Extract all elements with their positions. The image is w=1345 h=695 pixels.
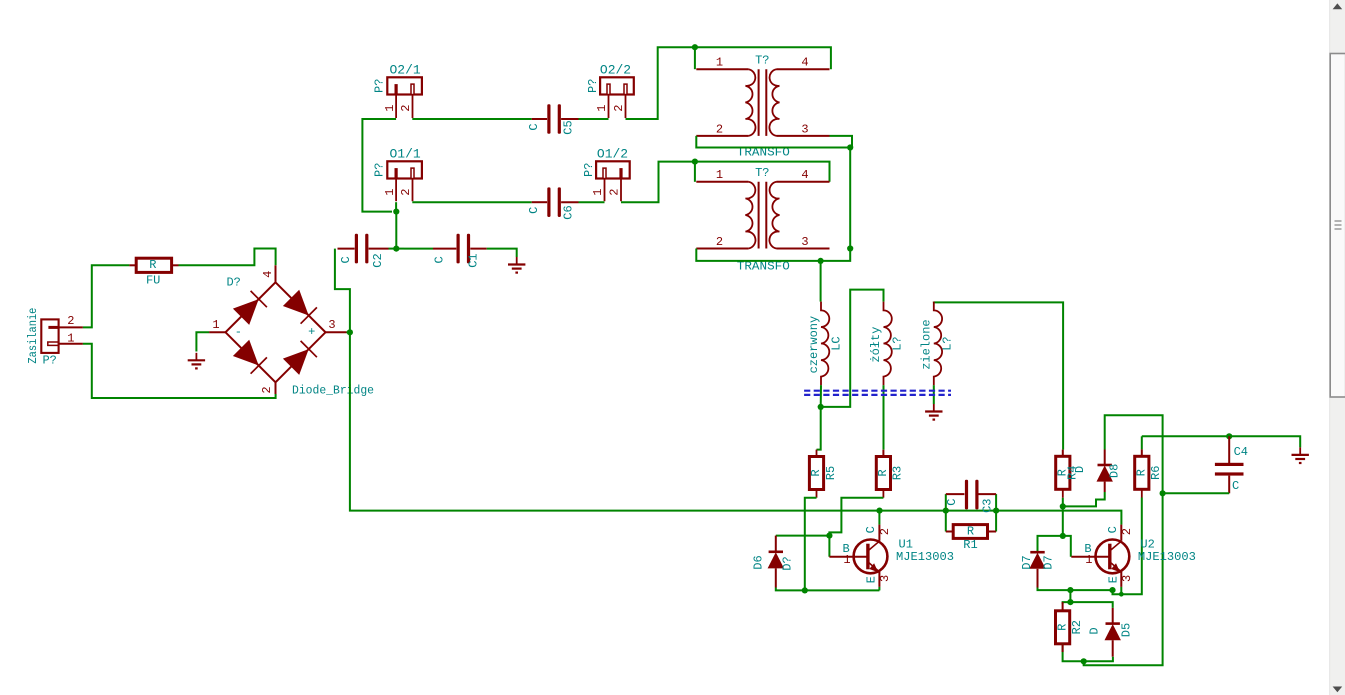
connector O1/2 (P?) — [582, 146, 630, 201]
svg-text:D7: D7 — [1042, 555, 1056, 569]
wire: to R2 top — [1063, 602, 1071, 604]
scrollbar track — [1330, 0, 1345, 695]
diode bridge D? (Diode_Bridge) — [209, 265, 374, 397]
svg-text:Zasilanie: Zasilanie — [26, 308, 40, 364]
svg-text:O2/2: O2/2 — [600, 62, 631, 77]
svg-text:2: 2 — [67, 314, 74, 328]
transistor U1 MJE13003 — [829, 525, 954, 587]
svg-text:2: 2 — [716, 122, 723, 136]
transformer T2 (TRANSFO) — [696, 166, 829, 273]
svg-text:R3: R3 — [891, 466, 905, 480]
wire: long node wire through C3/R1 — [880, 510, 997, 512]
svg-text:C2: C2 — [371, 253, 385, 267]
junction T1 bottom to inter-transformer rail — [847, 144, 853, 150]
svg-text:4: 4 — [261, 271, 275, 278]
svg-text:L?: L? — [891, 336, 905, 350]
connector O2/2 (P?) — [586, 62, 634, 118]
transistor U2 MJE13003 — [1071, 525, 1196, 587]
wire: T2 top rail — [691, 162, 830, 182]
wire: U1 collector from long wire — [878, 511, 880, 525]
capacitor C2 — [338, 234, 385, 268]
svg-text:C: C — [864, 526, 878, 533]
svg-text:1: 1 — [843, 553, 850, 567]
junction C2/C1 node — [393, 246, 399, 252]
resistor R2 — [1055, 611, 1084, 644]
svg-text:E: E — [864, 576, 878, 583]
wire: FU to bridge pin 4 — [179, 249, 276, 266]
svg-text:MJE13003: MJE13003 — [896, 550, 954, 564]
wire: down to T2 pin 1 — [694, 162, 696, 182]
wire: T1 pin2/pin3 bottom rail — [696, 136, 852, 148]
wire: R5 top pin stub — [816, 450, 818, 457]
ground (C1) — [508, 257, 525, 273]
svg-text:+: + — [308, 325, 315, 339]
wire: R6 top stub — [1141, 449, 1143, 456]
svg-text:P?: P? — [42, 354, 56, 368]
wire: C1 to ground — [487, 249, 517, 257]
svg-text:C3: C3 — [980, 498, 994, 512]
wire: R2 bottom rail to D5 anode — [1063, 644, 1113, 662]
svg-text:R6: R6 — [1149, 466, 1163, 480]
svg-text:2: 2 — [1120, 528, 1134, 535]
transformer T1 (TRANSFO) — [696, 54, 829, 160]
wire: zielone top stub — [933, 301, 935, 304]
svg-text:1: 1 — [716, 55, 723, 69]
resistor FU (fuse) — [129, 258, 178, 287]
junction emitter rail / R6 return — [1109, 587, 1115, 593]
wire: czerwony node up-over to zolty top — [821, 290, 884, 407]
svg-text:Diode_Bridge: Diode_Bridge — [292, 384, 374, 398]
svg-text:3: 3 — [801, 235, 808, 249]
junction U1 base node — [826, 533, 832, 539]
capacitor C1 — [432, 234, 486, 268]
wire: O1/1 pin1 stub down — [395, 202, 397, 211]
wire: R2 top stub — [1062, 602, 1064, 611]
resistor R4 — [1056, 456, 1080, 489]
svg-text:4: 4 — [801, 168, 808, 182]
svg-text:2: 2 — [716, 235, 723, 249]
svg-text:D: D — [1073, 466, 1087, 473]
wire: to inductor czerwony — [820, 261, 822, 302]
svg-text:U1: U1 — [899, 537, 913, 551]
wire: zielone top over to R4 riser — [934, 302, 1063, 449]
svg-text:MJE13003: MJE13003 — [1138, 550, 1196, 564]
svg-text:LC: LC — [830, 336, 844, 350]
junction U1 collector node — [876, 508, 882, 514]
connector O2/1 (P?) — [373, 62, 422, 118]
wire: R6 top rail to C4 top node — [1142, 435, 1229, 437]
wire: right leg of C3/R1 — [995, 494, 997, 531]
svg-text:C: C — [1106, 526, 1120, 533]
svg-text:C: C — [432, 256, 446, 263]
wire: rail to D5 cathode — [1070, 602, 1112, 608]
svg-text:C: C — [339, 256, 353, 263]
svg-text:1: 1 — [67, 331, 74, 345]
wire: U1 emitter rail — [776, 588, 880, 591]
junction emitter rail / R5 — [802, 587, 808, 593]
svg-text:L?: L? — [940, 336, 954, 350]
wire: node down to C2/C1 node — [395, 212, 397, 249]
svg-text:żółty: żółty — [869, 327, 883, 363]
wire: long wire right of C3/R1 to U2 collector — [996, 511, 1121, 525]
scrollbar thumb — [1330, 54, 1345, 398]
diode D5 — [1088, 608, 1134, 657]
wire: P? pin2 to fuse FU — [83, 265, 129, 327]
svg-text:D?: D? — [226, 275, 240, 289]
svg-text:3: 3 — [878, 575, 892, 582]
svg-text:R2: R2 — [1070, 620, 1084, 634]
wire: U2 emitter stub jog — [1120, 587, 1122, 594]
wire: O1/2 pin2 riser to T2 top — [621, 162, 691, 203]
connector P? Zasilanie (2-pin power input) — [26, 308, 83, 368]
inductor L? czerwony (red) — [807, 302, 843, 386]
svg-text:D?: D? — [781, 556, 795, 570]
dashed blue separator line (lower) — [804, 394, 951, 396]
svg-text:D7: D7 — [1020, 555, 1034, 569]
diode D7 — [1020, 552, 1056, 587]
svg-text:1: 1 — [595, 104, 609, 111]
svg-text:R1: R1 — [963, 538, 977, 552]
svg-text:3: 3 — [328, 318, 335, 332]
wire: R4 bottom pin stub — [1062, 489, 1064, 498]
scrollbar thumb grip lines — [1335, 221, 1342, 229]
wire: zolty bottom to R3 — [883, 385, 885, 450]
svg-text:P?: P? — [373, 79, 387, 93]
svg-text:R: R — [967, 525, 974, 539]
ground (bridge negative) — [188, 353, 205, 369]
svg-text:P?: P? — [586, 79, 600, 93]
svg-text:T?: T? — [755, 166, 769, 180]
wire: C6 to O1/2 pin1 — [579, 201, 605, 203]
svg-text:C: C — [527, 207, 541, 214]
svg-text:3: 3 — [801, 122, 808, 136]
wire: R3 bottom to U1 base — [829, 498, 883, 557]
scrollbar down arrow — [1333, 687, 1343, 693]
svg-text:-: - — [235, 325, 242, 339]
svg-text:1: 1 — [591, 188, 605, 195]
svg-text:E: E — [1106, 576, 1120, 583]
wire: czerwony node down to R5 — [817, 407, 821, 450]
svg-text:R: R — [149, 258, 156, 272]
svg-text:1: 1 — [716, 168, 723, 182]
scrollbar up arrow — [1333, 3, 1343, 9]
wire: O2/2 pin2 riser to T1 top — [626, 47, 692, 119]
wire: bottom rail drop — [1083, 661, 1085, 665]
svg-text:1: 1 — [383, 104, 397, 111]
wire: R6 top corner down — [1141, 436, 1143, 449]
wire: R6 bottom pin stub — [1141, 489, 1143, 497]
svg-text:O2/1: O2/1 — [389, 62, 420, 77]
wire: bridge pin 3 stub — [347, 331, 352, 333]
wire: T1 bottom to T2 pin 3 — [849, 148, 851, 249]
wire: base node to D7 — [1038, 536, 1063, 552]
inductor L? zielone (green) — [920, 302, 955, 386]
svg-text:R: R — [1055, 624, 1069, 631]
junction E pin on lower jog — [1119, 592, 1124, 597]
junction R2/D5 top rail — [1067, 599, 1073, 605]
svg-text:C4: C4 — [1234, 445, 1248, 459]
wire: emitter rail down to R2/D5 rail — [1069, 590, 1071, 602]
svg-text:3: 3 — [1120, 575, 1134, 582]
junction C3/R1 right node — [993, 508, 999, 514]
svg-text:T?: T? — [755, 54, 769, 68]
wire: O1/1 pin2 to C6 — [412, 201, 531, 203]
svg-text:czerwony: czerwony — [807, 316, 821, 374]
svg-text:R: R — [809, 469, 823, 476]
wire: O2/1 pin1 down-left riser to O1 node — [362, 119, 396, 212]
svg-text:2: 2 — [399, 104, 413, 111]
svg-text:D: D — [1088, 627, 1102, 634]
resistor R5 — [809, 457, 838, 490]
junction C4 top — [1226, 433, 1232, 439]
svg-text:C: C — [1232, 479, 1239, 493]
inductor L? zolty (yellow) — [869, 302, 905, 386]
wire: czerwony bottom — [820, 385, 822, 407]
wire: O2/1 pin2 to C5 — [412, 118, 531, 120]
junction U2 base node — [1060, 533, 1066, 539]
svg-text:R: R — [1135, 469, 1149, 476]
resistor R6 — [1135, 456, 1164, 489]
svg-text:O1/1: O1/1 — [389, 146, 420, 161]
svg-text:D8: D8 — [1108, 464, 1122, 478]
wire: C4 bottom to return rail — [1163, 492, 1230, 494]
wire: node staircase to D8 anode — [1063, 492, 1105, 506]
resistor R1 — [946, 525, 996, 552]
junction C4 bottom on return rail — [1160, 490, 1166, 496]
wire: left leg of C3/R1 — [945, 494, 947, 531]
ground (zielone) — [925, 404, 942, 420]
ground (C4 top rail) — [1292, 447, 1309, 463]
svg-text:U2: U2 — [1140, 537, 1154, 551]
wire: T1 top rail — [691, 47, 831, 69]
wire: T2 bottom rail — [696, 249, 850, 261]
wire: D8 cathode up over and down the right-side return rail — [1084, 415, 1163, 665]
wire: node to C1 — [404, 248, 433, 250]
svg-text:R: R — [876, 469, 890, 476]
wire: U1 emitter stub to rail — [878, 587, 880, 591]
resistor R3 — [876, 457, 905, 490]
wire: C2 to C1 node — [389, 248, 405, 250]
wire: P? pin1 to bridge pin 2 — [83, 344, 276, 398]
svg-text:D5: D5 — [1120, 623, 1134, 637]
wire: R2 bottom stub — [1062, 644, 1064, 652]
svg-text:R5: R5 — [824, 466, 838, 480]
capacitor C3 — [945, 480, 996, 513]
svg-text:4: 4 — [801, 55, 808, 69]
dashed blue separator line (upper) — [804, 390, 951, 392]
wire: R5 bottom pin stub — [816, 490, 818, 498]
junction secondary red-wire tap — [818, 258, 824, 264]
junction emitter rail / R2 branch — [1067, 587, 1073, 593]
wire: down to T1 pin 1 — [694, 47, 696, 69]
capacitor C4 (horizontal plates) — [1215, 436, 1248, 493]
svg-text:2: 2 — [399, 188, 413, 195]
svg-text:C6: C6 — [562, 205, 576, 219]
connector O1/1 (P?) — [373, 146, 422, 201]
wire: R4 top stub — [1062, 450, 1064, 457]
svg-text:2: 2 — [608, 188, 622, 195]
svg-text:zielone: zielone — [920, 319, 934, 369]
junction C3/R1 left node — [943, 508, 949, 514]
capacitor C5 — [527, 104, 579, 135]
svg-text:2: 2 — [260, 386, 274, 393]
junction bridge output node — [347, 329, 353, 335]
capacitor C6 — [527, 187, 579, 219]
diode D8 — [1097, 450, 1122, 493]
wire: D6 top to U1 base node — [776, 535, 830, 537]
wire: R3 bottom pin stub — [882, 490, 884, 498]
diode D6 — [752, 536, 795, 588]
junction bottom rail — [1081, 658, 1087, 664]
wire: C5 to O2/2 pin1 — [579, 118, 609, 120]
svg-text:1: 1 — [1085, 553, 1092, 567]
wire: zolty into R3 top stub — [882, 450, 884, 457]
wire: R5 bottom to emitter rail — [805, 498, 817, 591]
svg-text:2: 2 — [878, 528, 892, 535]
junction czerwony output node — [818, 404, 824, 410]
svg-text:2: 2 — [612, 104, 626, 111]
svg-text:D6: D6 — [752, 555, 766, 569]
junction T2 top — [692, 159, 698, 165]
wire: bridge pin 1 to ground — [196, 332, 209, 351]
svg-text:1: 1 — [383, 188, 397, 195]
svg-text:P?: P? — [582, 163, 596, 177]
svg-text:FU: FU — [146, 274, 160, 288]
svg-text:O1/2: O1/2 — [597, 146, 628, 161]
junction T1 top — [692, 44, 698, 50]
junction R4/D8 node — [1060, 503, 1066, 509]
wire: R6 bottom to U2 emitter rail — [1113, 498, 1142, 595]
wire: C4 top node continues to ground — [1229, 436, 1300, 447]
wire: C2 left node down to long bus wire to U1 collector node — [335, 249, 880, 511]
wire: base node to U2 base pin — [1063, 536, 1071, 557]
svg-text:1: 1 — [212, 318, 219, 332]
wire: zielone bottom to ground — [933, 385, 935, 404]
svg-text:C5: C5 — [562, 120, 576, 134]
svg-text:C: C — [527, 123, 541, 130]
svg-text:P?: P? — [373, 163, 387, 177]
junction T2 pin 3 node — [847, 245, 853, 251]
svg-text:C: C — [945, 498, 959, 505]
junction O1/O2 pin1 node — [393, 209, 399, 215]
svg-text:C1: C1 — [466, 253, 480, 267]
wire: U2 emitter rail — [1038, 588, 1113, 591]
wire: R4 bottom through node to U2 base node — [1062, 498, 1064, 536]
